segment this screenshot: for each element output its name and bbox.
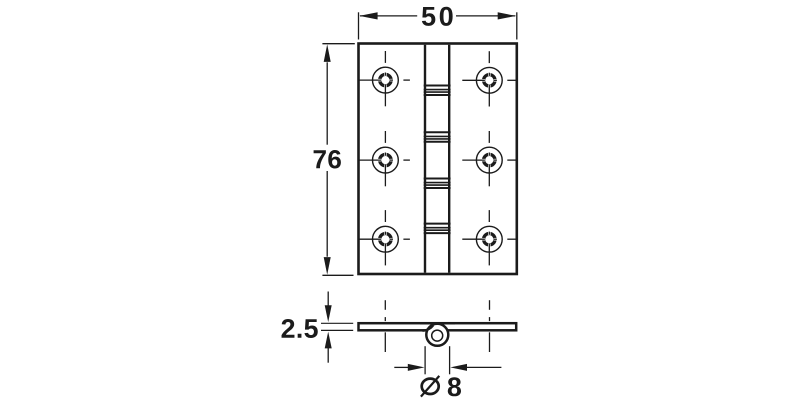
leaf curl into barrel xyxy=(423,325,434,330)
dimension text 76 xyxy=(314,150,341,169)
dimension text 2.5 xyxy=(282,319,318,338)
knuckle left edge line xyxy=(424,45,426,273)
hinge leaf outline (front view) xyxy=(359,44,517,275)
dimension 76 arrow up xyxy=(324,44,331,62)
dimension diameter 8 leader line right xyxy=(467,366,502,368)
knuckle right edge line xyxy=(448,45,450,273)
screw hole bottom-left xyxy=(358,210,410,265)
side view hole centerline left xyxy=(384,300,386,352)
knuckle joint lines group 2 xyxy=(424,132,451,142)
dimension 2.5 extension line top xyxy=(321,322,353,324)
dimension text diameter 8 xyxy=(421,376,461,397)
knuckle joint lines group 4 xyxy=(424,224,451,234)
dimension 2.5 arrow up xyxy=(325,332,332,349)
hinge pin hole (side view) xyxy=(432,330,443,341)
dimension 50 extension line left xyxy=(358,12,360,39)
dimension 76 line lower part xyxy=(326,171,328,257)
dimension diameter 8 leader line left xyxy=(394,366,409,368)
digit 8 xyxy=(448,377,461,396)
screw hole top-left xyxy=(358,51,410,106)
side view hole centerline right xyxy=(489,300,491,352)
dimension 76 extension line top xyxy=(322,43,354,45)
screw hole middle-right xyxy=(462,131,517,186)
dimension 2.5 leader line top xyxy=(327,292,329,307)
dimension 50 line right part xyxy=(456,15,515,17)
dimension 2.5 arrow down xyxy=(325,305,332,322)
dimension 50 arrow right xyxy=(498,12,516,19)
dimension diameter 8 extension line right xyxy=(449,346,451,374)
dimension diameter 8 arrow left xyxy=(450,364,467,371)
dimension 50 arrow left xyxy=(359,12,377,19)
knuckle joint lines group 1 xyxy=(424,86,451,96)
hinge leaf bar (side view) xyxy=(359,323,517,330)
screw hole middle-left xyxy=(358,131,410,186)
dimension 76 line upper part xyxy=(326,62,328,144)
dimension 2.5 leader line bottom xyxy=(327,347,329,363)
screw hole bottom-right xyxy=(462,210,517,265)
dimension 50 extension line right xyxy=(516,12,518,39)
knuckle joint lines group 3 xyxy=(424,179,451,189)
screw hole top-right xyxy=(462,51,517,106)
dimension 76 arrow down xyxy=(324,257,331,275)
dimension text 50 xyxy=(422,7,453,26)
dimension 76 extension line bottom xyxy=(322,274,353,276)
dimension 2.5 extension line bottom xyxy=(321,329,353,331)
bar top line over barrel xyxy=(420,322,455,325)
dimension diameter 8 extension line left xyxy=(424,346,426,374)
hinge knuckle barrel (side view) xyxy=(426,324,448,346)
dimension 50 line left part xyxy=(360,15,417,17)
dimension diameter 8 arrow right xyxy=(408,364,425,371)
